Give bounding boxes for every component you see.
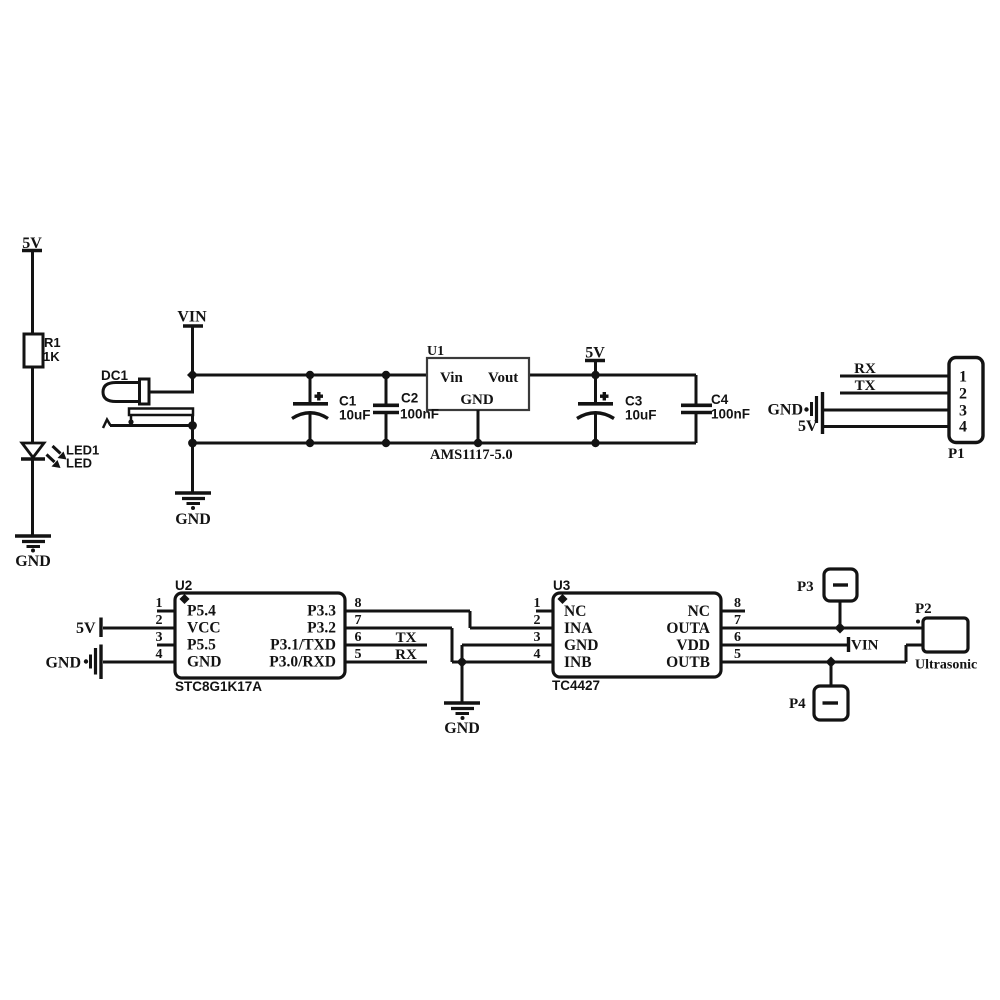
svg-text:4: 4: [156, 647, 163, 662]
svg-text:Vout: Vout: [488, 370, 518, 386]
svg-text:RX: RX: [854, 361, 876, 377]
svg-text:4: 4: [959, 419, 967, 436]
svg-text:U1: U1: [427, 344, 444, 359]
svg-text:AMS1117-5.0: AMS1117-5.0: [430, 447, 513, 463]
svg-text:OUTB: OUTB: [666, 654, 710, 671]
svg-text:R1: R1: [44, 335, 61, 350]
svg-text:P3.3: P3.3: [307, 603, 336, 620]
svg-text:P2: P2: [915, 601, 932, 617]
svg-text:DC1: DC1: [101, 368, 128, 383]
svg-text:5V: 5V: [76, 620, 96, 637]
svg-text:P4: P4: [789, 696, 806, 712]
svg-text:2: 2: [156, 613, 163, 628]
svg-text:GND: GND: [175, 511, 211, 528]
svg-text:1K: 1K: [43, 349, 60, 364]
svg-text:GND: GND: [460, 392, 494, 408]
svg-text:5: 5: [355, 647, 362, 662]
svg-text:LED: LED: [66, 456, 92, 471]
svg-text:NC: NC: [564, 603, 586, 620]
svg-text:2: 2: [534, 613, 541, 628]
svg-text:6: 6: [355, 630, 362, 645]
svg-text:7: 7: [355, 613, 362, 628]
svg-text:100nF: 100nF: [400, 407, 439, 422]
svg-text:INB: INB: [564, 654, 592, 671]
svg-text:P1: P1: [948, 446, 965, 462]
svg-text:GND: GND: [444, 720, 480, 737]
svg-text:4: 4: [534, 647, 541, 662]
svg-text:TX: TX: [855, 378, 876, 394]
svg-text:3: 3: [156, 630, 163, 645]
svg-text:C3: C3: [625, 394, 643, 409]
svg-text:3: 3: [959, 403, 967, 420]
svg-text:5: 5: [734, 647, 741, 662]
svg-text:5V: 5V: [585, 345, 605, 362]
svg-text:VIN: VIN: [851, 638, 879, 654]
svg-text:GND: GND: [564, 637, 598, 654]
svg-text:3: 3: [534, 630, 541, 645]
svg-text:GND: GND: [45, 655, 81, 672]
svg-text:P5.4: P5.4: [187, 603, 216, 620]
svg-text:RX: RX: [395, 647, 417, 663]
svg-text:8: 8: [734, 596, 741, 611]
svg-text:2: 2: [959, 386, 967, 403]
svg-text:C4: C4: [711, 392, 729, 407]
svg-text:TX: TX: [396, 630, 417, 646]
svg-text:U3: U3: [553, 578, 571, 593]
svg-text:1: 1: [959, 369, 967, 386]
svg-text:Vin: Vin: [440, 370, 463, 386]
svg-text:8: 8: [355, 596, 362, 611]
svg-text:TC4427: TC4427: [552, 678, 600, 693]
svg-text:P3.1/TXD: P3.1/TXD: [270, 637, 336, 654]
svg-text:C2: C2: [401, 391, 418, 406]
svg-text:NC: NC: [688, 603, 710, 620]
svg-text:VDD: VDD: [676, 637, 710, 654]
svg-text:100nF: 100nF: [711, 407, 750, 422]
svg-text:C1: C1: [339, 394, 357, 409]
svg-text:VCC: VCC: [187, 620, 221, 637]
svg-text:U2: U2: [175, 578, 192, 593]
svg-text:GND: GND: [767, 402, 803, 419]
svg-text:10uF: 10uF: [339, 408, 371, 423]
svg-text:1: 1: [534, 596, 541, 611]
svg-text:P5.5: P5.5: [187, 637, 216, 654]
svg-text:P3.2: P3.2: [307, 620, 336, 637]
svg-text:Ultrasonic: Ultrasonic: [915, 658, 977, 673]
svg-text:GND: GND: [187, 654, 221, 671]
svg-text:STC8G1K17A: STC8G1K17A: [175, 679, 262, 694]
svg-text:10uF: 10uF: [625, 408, 657, 423]
svg-text:OUTA: OUTA: [666, 620, 710, 637]
svg-text:INA: INA: [564, 620, 593, 637]
svg-text:P3.0/RXD: P3.0/RXD: [269, 654, 336, 671]
svg-text:VIN: VIN: [177, 309, 207, 326]
svg-text:GND: GND: [15, 553, 51, 570]
svg-text:7: 7: [734, 613, 741, 628]
svg-text:5V: 5V: [22, 235, 42, 252]
svg-text:6: 6: [734, 630, 741, 645]
svg-text:1: 1: [156, 596, 163, 611]
svg-text:5V: 5V: [798, 418, 818, 435]
svg-text:P3: P3: [797, 579, 814, 595]
